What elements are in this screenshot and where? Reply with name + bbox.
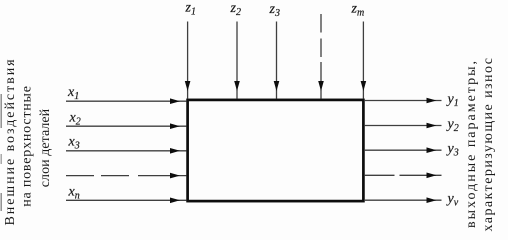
wire z3 xyxy=(276,22,278,99)
svg-text:на поверхностные: на поверхностные xyxy=(20,85,35,207)
wire z1 xyxy=(187,22,189,99)
wire y1 xyxy=(365,100,442,102)
svg-text:Внешние воздействия: Внешние воздействия xyxy=(3,57,18,225)
arrowhead z3 xyxy=(274,81,280,91)
wire z4 dashed xyxy=(320,14,322,99)
arrowhead z4 xyxy=(318,81,324,91)
scan edge mark 2 xyxy=(1,154,2,164)
arrowhead z1 xyxy=(185,81,191,91)
arrowhead y2 xyxy=(427,123,437,129)
wire x3 xyxy=(66,150,187,152)
arrowhead y3 xyxy=(427,147,437,153)
svg-text:характеризующие износ: характеризующие износ xyxy=(481,57,496,232)
wire zm xyxy=(362,22,364,99)
arrowhead zm xyxy=(361,81,367,91)
wire x4 dashed xyxy=(66,175,187,177)
wire z2 xyxy=(236,22,238,99)
arrowhead yv xyxy=(427,197,437,203)
svg-text:слои деталей: слои деталей xyxy=(38,108,53,187)
block (system box) xyxy=(188,100,364,201)
arrowhead y4 xyxy=(427,173,437,179)
arrowhead z2 xyxy=(234,81,240,91)
wire yv xyxy=(365,199,442,201)
scan edge mark 1 xyxy=(1,94,2,128)
wire y2 xyxy=(365,125,442,127)
scan edge mark 3 xyxy=(1,193,2,211)
svg-text:выходные параметры,: выходные параметры, xyxy=(464,59,479,228)
wire x1 xyxy=(66,100,187,102)
arrowhead y1 xyxy=(427,98,437,104)
wire xn xyxy=(66,199,187,201)
arrowhead x4 xyxy=(170,173,180,179)
arrowhead xn xyxy=(170,198,180,204)
arrowhead x2 xyxy=(170,123,180,129)
arrowhead x3 xyxy=(170,148,180,154)
wire x2 xyxy=(66,125,187,127)
wire y3 xyxy=(365,149,442,151)
arrowhead x1 xyxy=(170,98,180,104)
wire y4 dashed xyxy=(365,174,442,176)
